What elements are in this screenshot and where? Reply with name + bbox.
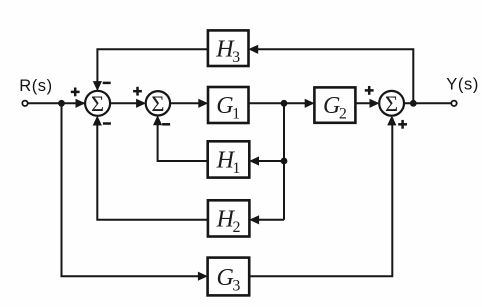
svg-text:Σ: Σ	[151, 91, 164, 116]
svg-text:Σ: Σ	[385, 91, 398, 116]
svg-text:R(s): R(s)	[19, 77, 53, 95]
svg-text:Y(s): Y(s)	[446, 76, 479, 94]
svg-text:Σ: Σ	[91, 91, 104, 116]
